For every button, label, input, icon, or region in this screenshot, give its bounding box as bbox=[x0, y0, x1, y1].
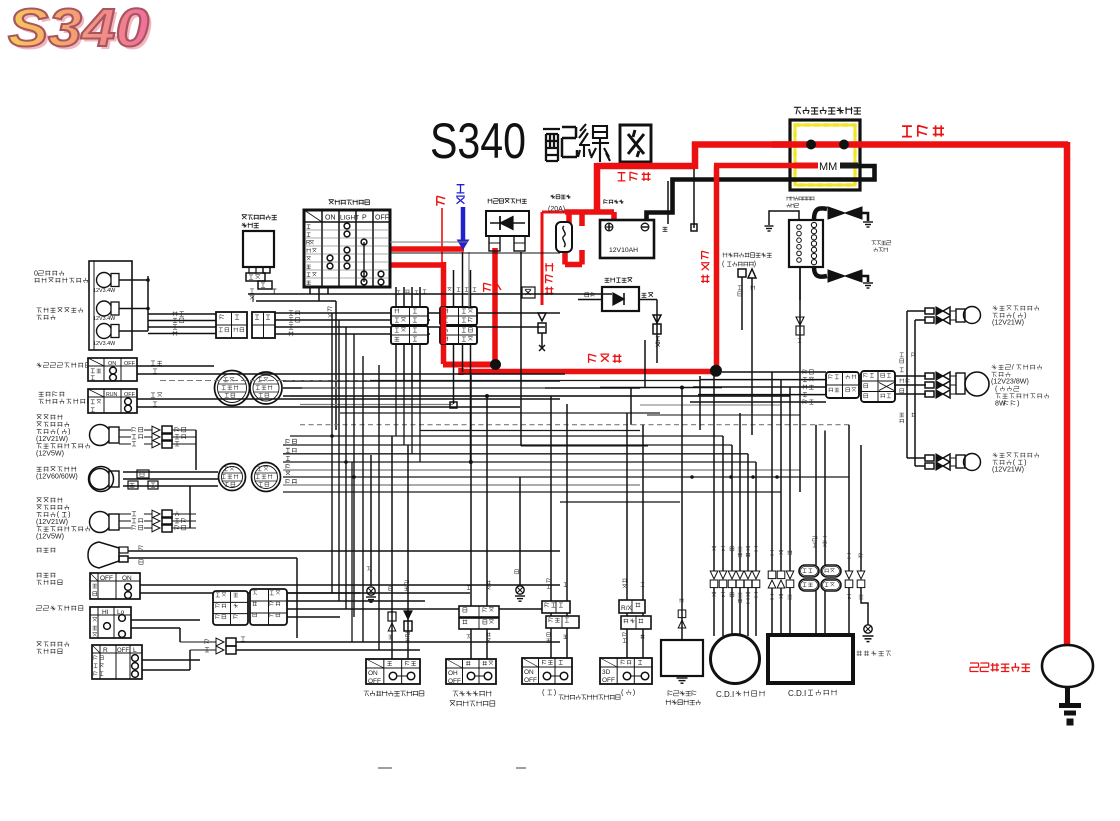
svg-text:R/X: R/X bbox=[621, 605, 633, 612]
svg-text:(12V21W): (12V21W) bbox=[36, 435, 68, 443]
svg-text:(12V60/60W): (12V60/60W) bbox=[36, 473, 78, 481]
svg-text:OFF: OFF bbox=[448, 678, 461, 685]
svg-text:OFF: OFF bbox=[524, 677, 537, 684]
svg-text:12V10AH: 12V10AH bbox=[609, 247, 638, 254]
svg-text:(20A): (20A) bbox=[548, 206, 565, 213]
svg-text:OH: OH bbox=[448, 670, 458, 677]
svg-text:OFF: OFF bbox=[117, 648, 129, 654]
svg-text:RUN: RUN bbox=[106, 392, 117, 398]
svg-text:(12V21W): (12V21W) bbox=[36, 518, 68, 526]
svg-text:C.D.I: C.D.I bbox=[788, 689, 806, 698]
svg-text:0: 0 bbox=[34, 269, 38, 277]
svg-text:): ) bbox=[68, 511, 70, 519]
svg-text:(12V21W): (12V21W) bbox=[992, 466, 1024, 474]
svg-text:(12V21W): (12V21W) bbox=[992, 319, 1024, 327]
svg-text:ON: ON bbox=[122, 575, 132, 582]
svg-text:): ) bbox=[1024, 312, 1026, 320]
svg-text:12V3.4W: 12V3.4W bbox=[93, 341, 116, 347]
svg-text:OFF: OFF bbox=[602, 677, 615, 684]
svg-text:MM: MM bbox=[819, 161, 837, 173]
svg-text:OFF: OFF bbox=[375, 215, 389, 222]
svg-text:): ) bbox=[68, 428, 70, 436]
svg-text:P: P bbox=[362, 215, 367, 222]
svg-text:): ) bbox=[1024, 459, 1026, 467]
svg-text:R: R bbox=[103, 647, 108, 654]
svg-text:S340: S340 bbox=[430, 113, 526, 169]
svg-text:ON: ON bbox=[524, 669, 534, 676]
svg-text:): ) bbox=[754, 261, 756, 268]
svg-text:OFF: OFF bbox=[368, 678, 381, 685]
svg-text:OFF: OFF bbox=[124, 361, 136, 367]
svg-text:LIGHT: LIGHT bbox=[340, 215, 359, 222]
svg-text:ON: ON bbox=[108, 361, 116, 367]
svg-text:/: / bbox=[1012, 363, 1014, 371]
svg-text:12V3.4W: 12V3.4W bbox=[93, 288, 116, 294]
svg-text:ON: ON bbox=[368, 670, 378, 677]
svg-text:(12V5W): (12V5W) bbox=[36, 532, 64, 540]
svg-text:12V3.4W: 12V3.4W bbox=[93, 316, 116, 322]
svg-text:OFF: OFF bbox=[100, 575, 113, 582]
svg-text:S340: S340 bbox=[8, 0, 149, 58]
svg-text:(12V5W): (12V5W) bbox=[36, 449, 64, 457]
svg-text:C.D.I: C.D.I bbox=[716, 690, 734, 699]
svg-text:ON: ON bbox=[325, 215, 336, 222]
svg-text:3D: 3D bbox=[602, 669, 611, 676]
svg-text:L: L bbox=[133, 647, 137, 654]
svg-text:): ) bbox=[1017, 399, 1019, 407]
svg-text:OFF: OFF bbox=[124, 392, 136, 398]
svg-text:HI: HI bbox=[102, 609, 109, 616]
